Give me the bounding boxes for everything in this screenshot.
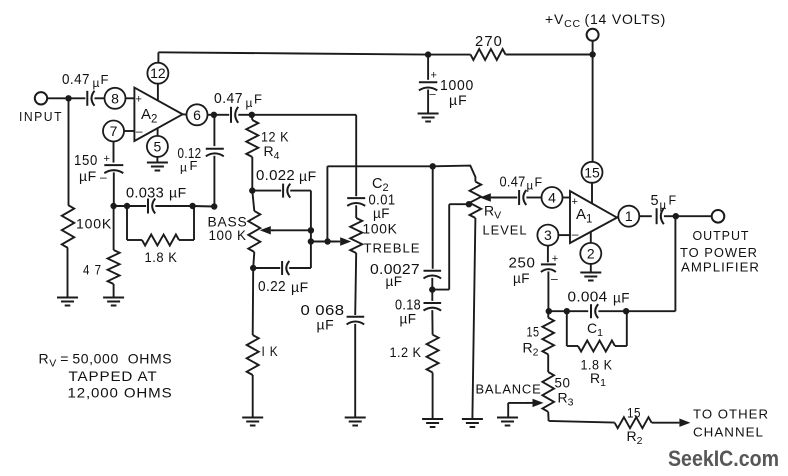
wire output node down to feedback rail <box>674 216 676 311</box>
svg-text:150: 150 <box>74 152 98 169</box>
wire 0.068 to ground <box>354 324 356 417</box>
wire 0.0027 to tap node <box>431 278 433 290</box>
svg-text:12,000 OHMS: 12,000 OHMS <box>68 385 173 401</box>
resistor R2 15 (horizontal) <box>615 417 652 428</box>
svg-text:INPUT: INPUT <box>19 109 63 124</box>
ground below pin 2 <box>580 273 601 281</box>
svg-text:µ: µ <box>527 181 534 193</box>
svg-text:F: F <box>190 158 198 173</box>
ground below 4.7 <box>103 298 124 306</box>
node treble-out rail junction <box>430 163 436 169</box>
ground below 100K <box>57 298 78 306</box>
svg-text:0.022: 0.022 <box>256 167 295 184</box>
terminal OUTPUT <box>712 210 725 223</box>
potentiometer R3 50 (balance) <box>547 354 549 372</box>
svg-text:1.8 K: 1.8 K <box>145 249 178 265</box>
svg-text:250: 250 <box>509 256 536 272</box>
svg-text:µF: µF <box>400 312 417 327</box>
wire treble wiper rail <box>311 241 337 243</box>
op-amp A1 pin 1 <box>618 206 639 227</box>
svg-text:5: 5 <box>651 193 659 209</box>
wire 0.022 to bass top link <box>290 190 311 192</box>
svg-text:TREBLE: TREBLE <box>364 241 421 256</box>
op-amp A1 pin 15 <box>582 162 603 183</box>
svg-text:15: 15 <box>627 405 641 421</box>
ground below 1.2K <box>422 419 443 427</box>
svg-text:–: – <box>136 124 143 138</box>
capacitor 250uF (electrolytic) <box>541 264 556 272</box>
op-amp A1 pin 3 <box>537 225 558 246</box>
op-amp A2 pin 5 <box>147 136 168 157</box>
svg-text:100K: 100K <box>76 216 112 232</box>
wire rail to 1000uF <box>427 55 429 80</box>
svg-text:+: + <box>552 253 558 265</box>
capacitor 0.47uF coupling <box>231 107 238 123</box>
svg-text:SeekIC.com: SeekIC.com <box>668 446 779 471</box>
svg-text:TAPPED AT: TAPPED AT <box>69 368 158 384</box>
svg-text:µF: µF <box>299 168 317 184</box>
wire node C to 0.12 branch <box>193 205 215 208</box>
svg-text:4 7: 4 7 <box>83 262 102 278</box>
wire pin 7 down to 150uF <box>113 142 115 163</box>
capacitor 1000uF (electrolytic) <box>419 82 437 90</box>
node bass wiper junction <box>308 227 314 233</box>
capacitor 0.47uF input <box>87 91 94 106</box>
ground below 1K <box>242 418 263 426</box>
resistor 270 <box>471 49 506 60</box>
capacitor C2 0.01uF <box>347 198 365 206</box>
svg-text:100 K: 100 K <box>209 227 247 243</box>
node junction 1000uF tap <box>425 51 431 57</box>
wire to 0.47uF <box>214 114 229 116</box>
svg-text:8: 8 <box>111 90 119 106</box>
node 250uF junction <box>546 308 552 314</box>
balance wiper arrow <box>526 399 544 407</box>
node R4 top junction <box>249 112 255 118</box>
wire input to junction <box>47 97 68 99</box>
capacitor 0.22uF <box>253 267 280 269</box>
ground below 1000uF <box>418 114 439 122</box>
node feedback junction B <box>124 203 130 209</box>
svg-text:F: F <box>254 92 262 107</box>
svg-text:CHANNEL: CHANNEL <box>693 425 764 440</box>
wire RV wiper to 0.47uF <box>491 197 518 199</box>
op-amp A2 pin 7 <box>103 121 124 142</box>
wire and arrow to other channel <box>652 419 691 427</box>
svg-text:F: F <box>101 72 109 87</box>
svg-text:0.47: 0.47 <box>62 71 90 88</box>
svg-text:µ: µ <box>180 161 187 175</box>
wire R3 bottom to R2 horizontal <box>549 421 615 423</box>
svg-text:15: 15 <box>584 164 600 180</box>
wire pin8 to A2 <box>126 97 135 99</box>
svg-text:1: 1 <box>625 208 633 224</box>
resistor R1 1.8K <box>566 311 568 346</box>
capacitor C1 0.004uF <box>591 304 598 318</box>
wire cap to R4 node <box>238 114 252 116</box>
ground below RV pot <box>462 419 483 427</box>
wire top supply rail from pin 12 to Vcc node <box>158 52 470 54</box>
capacitor 150uF (electrolytic) <box>104 165 123 173</box>
svg-text:1.2 K: 1.2 K <box>390 344 422 360</box>
node input junction <box>65 95 71 101</box>
resistor R2 15 (vertical) <box>547 311 549 317</box>
svg-text:µF: µF <box>449 92 468 108</box>
wire to 0.022 cap <box>252 190 281 192</box>
svg-text:µF: µF <box>613 291 630 306</box>
capacitor 0.12uF <box>213 115 215 146</box>
node treble wiper rail junction <box>308 238 314 244</box>
svg-text:–: – <box>572 227 579 241</box>
svg-text:µF: µF <box>169 185 187 201</box>
svg-text:+: + <box>104 153 110 165</box>
svg-text:TO OTHER: TO OTHER <box>693 407 769 422</box>
svg-text:0.47: 0.47 <box>500 175 526 191</box>
svg-text:5: 5 <box>154 138 162 154</box>
svg-text:TO POWER: TO POWER <box>680 245 758 260</box>
capacitor 0.033uF <box>148 199 155 214</box>
node feedback rail left junction <box>564 308 570 314</box>
ground balance <box>497 418 518 426</box>
svg-text:12: 12 <box>150 65 166 81</box>
svg-text:3: 3 <box>544 227 552 243</box>
capacitor 0.068uF <box>347 317 365 325</box>
svg-text:+: + <box>431 70 437 82</box>
svg-text:µF: µF <box>373 206 390 221</box>
op-amp A1 pin 4 <box>542 187 563 208</box>
op-amp A2 triangle <box>134 88 182 141</box>
svg-text:0.47: 0.47 <box>214 90 243 107</box>
treble wiper arrow <box>335 237 351 245</box>
resistor R4 12K <box>251 115 254 120</box>
resistor 1K <box>252 268 255 335</box>
wire 150uF to feedback node <box>113 172 115 206</box>
node treble rail mid junction <box>324 238 330 244</box>
node 0.22 junction on bass line <box>250 265 256 271</box>
svg-text:–: – <box>430 89 437 101</box>
svg-text:100K: 100K <box>363 221 398 237</box>
resistor 1.2K <box>431 310 433 335</box>
svg-text:7: 7 <box>110 123 118 139</box>
capacitor 0.18uF <box>431 290 433 301</box>
svg-text:LEVEL: LEVEL <box>483 223 528 238</box>
node RV tap junction <box>466 201 472 207</box>
wire 0.033 cap to node C <box>155 205 192 207</box>
svg-text:50: 50 <box>555 375 571 391</box>
svg-text:I K: I K <box>262 343 279 359</box>
resistor 100K (input) <box>62 205 74 248</box>
op-amp A2 pin 6 <box>187 104 208 125</box>
svg-text:µF: µF <box>513 271 530 286</box>
op-amp A1 pin 2 <box>580 243 601 264</box>
terminal INPUT <box>35 92 47 104</box>
wire down to 0.0027 <box>432 166 434 268</box>
wire cap to pin 8 <box>95 97 105 99</box>
svg-text:F: F <box>669 194 677 208</box>
svg-text:µF: µF <box>79 168 97 184</box>
wire to output terminal <box>676 215 712 217</box>
op-amp A1 triangle <box>570 191 617 243</box>
wire bass wiper to node <box>273 229 311 231</box>
svg-text:0.004: 0.004 <box>568 290 608 306</box>
op-amp A2 pin 8 <box>105 88 126 109</box>
node 0.022 junction <box>249 187 255 193</box>
wire 1000uF to ground <box>427 90 429 113</box>
node 0.12 bottom junction <box>211 203 217 209</box>
wire signal run to treble branch <box>252 114 356 116</box>
svg-text:OUTPUT: OUTPUT <box>693 228 750 243</box>
resistor 4.7 <box>108 250 120 284</box>
terminal +Vcc <box>587 29 599 41</box>
wire junction to input cap <box>69 97 86 99</box>
svg-text:2: 2 <box>587 245 595 261</box>
wire node A down to 4.7 <box>113 206 115 250</box>
svg-text:µF: µF <box>317 317 335 333</box>
node feedback rail right junction <box>623 308 629 314</box>
svg-text:–: – <box>551 272 558 286</box>
wire feedback rail <box>598 310 626 312</box>
svg-text:0.033: 0.033 <box>126 185 164 202</box>
wire 5uF to output node <box>664 215 676 217</box>
svg-text:4: 4 <box>548 190 556 206</box>
ground below 0.068 <box>345 418 366 426</box>
ground below pin 5 <box>147 163 168 171</box>
svg-text:µ: µ <box>93 76 100 90</box>
wire node A to 0.033 cap <box>114 205 147 207</box>
wire tap link to level pot tap <box>432 289 449 291</box>
node junction Vcc <box>589 51 595 57</box>
wire mid rail riser <box>326 166 328 241</box>
wire balance wiper to ground <box>508 402 527 404</box>
svg-text:AMPLIFIER: AMPLIFIER <box>681 260 760 275</box>
wire treble-out rail to level pot <box>327 166 475 182</box>
resistor 1.8 K (A2 feedback) <box>126 206 128 240</box>
svg-text:µF: µF <box>291 279 309 295</box>
wire 250uF down to junction <box>547 272 549 312</box>
RV wiper arrow <box>480 193 492 201</box>
wire pin 3 down to 250uF <box>547 246 549 263</box>
svg-text:0.22: 0.22 <box>258 278 286 295</box>
svg-text:+: + <box>136 94 142 106</box>
capacitor 0.0027uF <box>424 271 442 279</box>
svg-text:–: – <box>100 170 107 184</box>
bass wiper arrow <box>260 226 274 234</box>
svg-text:µ: µ <box>246 96 253 110</box>
svg-text:µ: µ <box>660 200 667 212</box>
svg-text:270: 270 <box>475 33 503 50</box>
svg-text:BALANCE: BALANCE <box>476 382 542 397</box>
wire input junction down to 100K <box>68 98 70 205</box>
svg-text:F: F <box>535 176 543 190</box>
node feedback junction A <box>110 203 116 209</box>
capacitor 0.022uF <box>283 184 290 198</box>
svg-text:6: 6 <box>193 107 201 123</box>
wire Vcc node down to pin 15 <box>592 55 594 162</box>
wire cap to pin 4 <box>526 197 541 199</box>
svg-text:µF: µF <box>386 274 403 289</box>
capacitor 0.47uF level <box>519 190 526 205</box>
wire bass node down <box>310 230 312 241</box>
node output junction <box>673 213 679 219</box>
node tap junction <box>429 286 435 292</box>
svg-text:15: 15 <box>527 324 540 340</box>
capacitor 5uF output <box>657 208 664 224</box>
node feedback junction C <box>189 203 195 209</box>
potentiometer TREBLE 100K <box>355 205 357 218</box>
potentiometer RV (level) <box>470 182 482 218</box>
potentiometer BASS 100K <box>252 191 254 211</box>
node A2 output junction <box>211 112 217 118</box>
op-amp A2 pin 12 <box>147 63 168 84</box>
